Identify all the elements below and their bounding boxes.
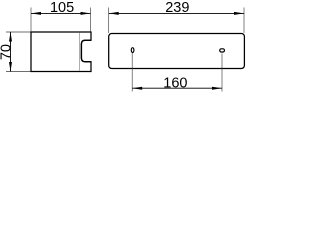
dim 160 line — [132, 87, 222, 89]
dim 105 arrow right — [81, 12, 91, 15]
dim 239 extension line right — [243, 8, 245, 34]
dim 105 line — [31, 12, 91, 14]
svg-text:239: 239 — [165, 0, 189, 16]
dim 70 extension line bottom — [6, 71, 31, 73]
dim 239 arrow left — [109, 12, 119, 15]
dim 160 arrow left — [132, 87, 142, 90]
svg-text:105: 105 — [50, 0, 74, 16]
side view inner wall-plate line — [78, 33, 80, 72]
side view notch (heavier stroke) — [81, 40, 91, 61]
dim 70 arrow down — [9, 62, 12, 72]
dim 105 arrow left — [31, 12, 41, 15]
front view right mounting slot — [220, 49, 225, 52]
dim 160 arrow right — [212, 87, 222, 90]
dim 70 line — [10, 32, 12, 72]
dim 160 extension line right — [221, 54, 223, 92]
side view outline — [31, 32, 91, 72]
svg-text:160: 160 — [163, 76, 187, 92]
dim 239 arrow right — [234, 12, 244, 15]
dim 70 arrow up — [9, 32, 12, 42]
dim 239 extension line left — [108, 8, 110, 34]
dim 105 extension line left — [30, 8, 32, 32]
front view rounded body — [109, 34, 245, 69]
front view left mounting hole — [131, 48, 134, 53]
dim 105 extension line right — [90, 8, 92, 32]
svg-text:70: 70 — [0, 44, 14, 60]
dim 239 line — [109, 12, 244, 14]
dim 70 extension line top — [6, 31, 31, 33]
dim 160 extension line left — [131, 53, 133, 92]
